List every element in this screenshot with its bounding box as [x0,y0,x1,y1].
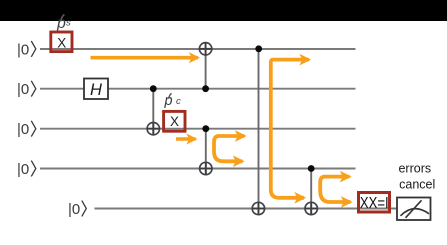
wire 3 [40,128,356,130]
CNOT target oplus on wire 5 (right) [305,202,317,214]
CNOT control wire1 -> target wire5 : long vertical [258,49,260,215]
wire 4 [40,168,356,170]
svg-text:|0: |0 [17,81,29,98]
CNOT target oplus on wire 4 [200,162,212,174]
control dot on wire 1 [255,45,262,52]
qubit ket |0> wire 2 [17,81,36,98]
svg-text:XX=I: XX=I [360,195,389,212]
CNOT target oplus on wire 1 [199,43,211,55]
svg-text:|0: |0 [17,161,29,178]
label p_s [56,15,71,32]
svg-text:|0: |0 [17,121,29,138]
orange long propagation arrow (wire1 down to wire5) [271,60,309,198]
control dot on wire 2 [202,85,209,92]
orange bracket arrow wire3->wire4 top arm [214,136,243,161]
svg-text:errors: errors [398,162,431,176]
svg-text:p: p [164,93,173,109]
label p_c [164,93,182,109]
orange bracket arrow wire4->wire5 bottom arm [320,177,350,202]
qubit ket |0> wire 5 (ancilla) [68,201,86,218]
wire 5 [95,208,398,210]
svg-text:cancel: cancel [399,178,435,192]
svg-text:|0: |0 [17,41,29,58]
svg-text:p: p [56,15,66,32]
black top bar [0,0,447,21]
qubit ket |0> wire 4 [17,161,36,178]
X gate with red highlight box (wire 3) [164,111,185,131]
X gate with red highlight box (wire 1) [51,32,72,52]
wire 2 [40,88,356,90]
svg-text:H: H [90,81,102,99]
control dot on wire 4 [308,165,315,172]
CNOT control wire2 -> target wire3 : vertical [152,89,154,135]
errors cancel label [398,162,435,192]
XX=I red box [359,193,390,213]
CNOT control wire3 -> target wire4 : vertical [205,129,207,175]
svg-text:s: s [66,18,71,29]
orange arrow on wire 1 [91,56,199,60]
orange bracket arrow wire4->wire5 top arrowhead [324,175,350,179]
CNOT target oplus on wire 3 [147,123,159,135]
wire 1 [40,48,356,50]
control dot on wire 2 (left) [150,85,157,92]
svg-text:c: c [176,96,181,107]
H gate on wire 2 [84,79,108,100]
qubit ket |0> wire 3 [17,121,36,138]
CNOT control wire2 -> target wire1 : vertical [205,42,207,89]
svg-text:X: X [170,114,179,129]
measurement meter box [397,198,431,221]
orange bracket arrow wire3->wire4 top arrowhead [218,134,245,138]
orange short arrow on wire 3 [176,137,196,141]
CNOT control wire4 -> target wire5 : vertical [310,169,312,215]
CNOT target oplus on wire 5 (left) [252,202,264,214]
svg-text:X: X [57,35,66,50]
control dot on wire 3 [202,125,209,132]
meter arc [401,209,430,216]
svg-text:|0: |0 [68,201,80,218]
qubit ket |0> wire 1 [17,41,36,58]
meter needle [406,200,422,218]
